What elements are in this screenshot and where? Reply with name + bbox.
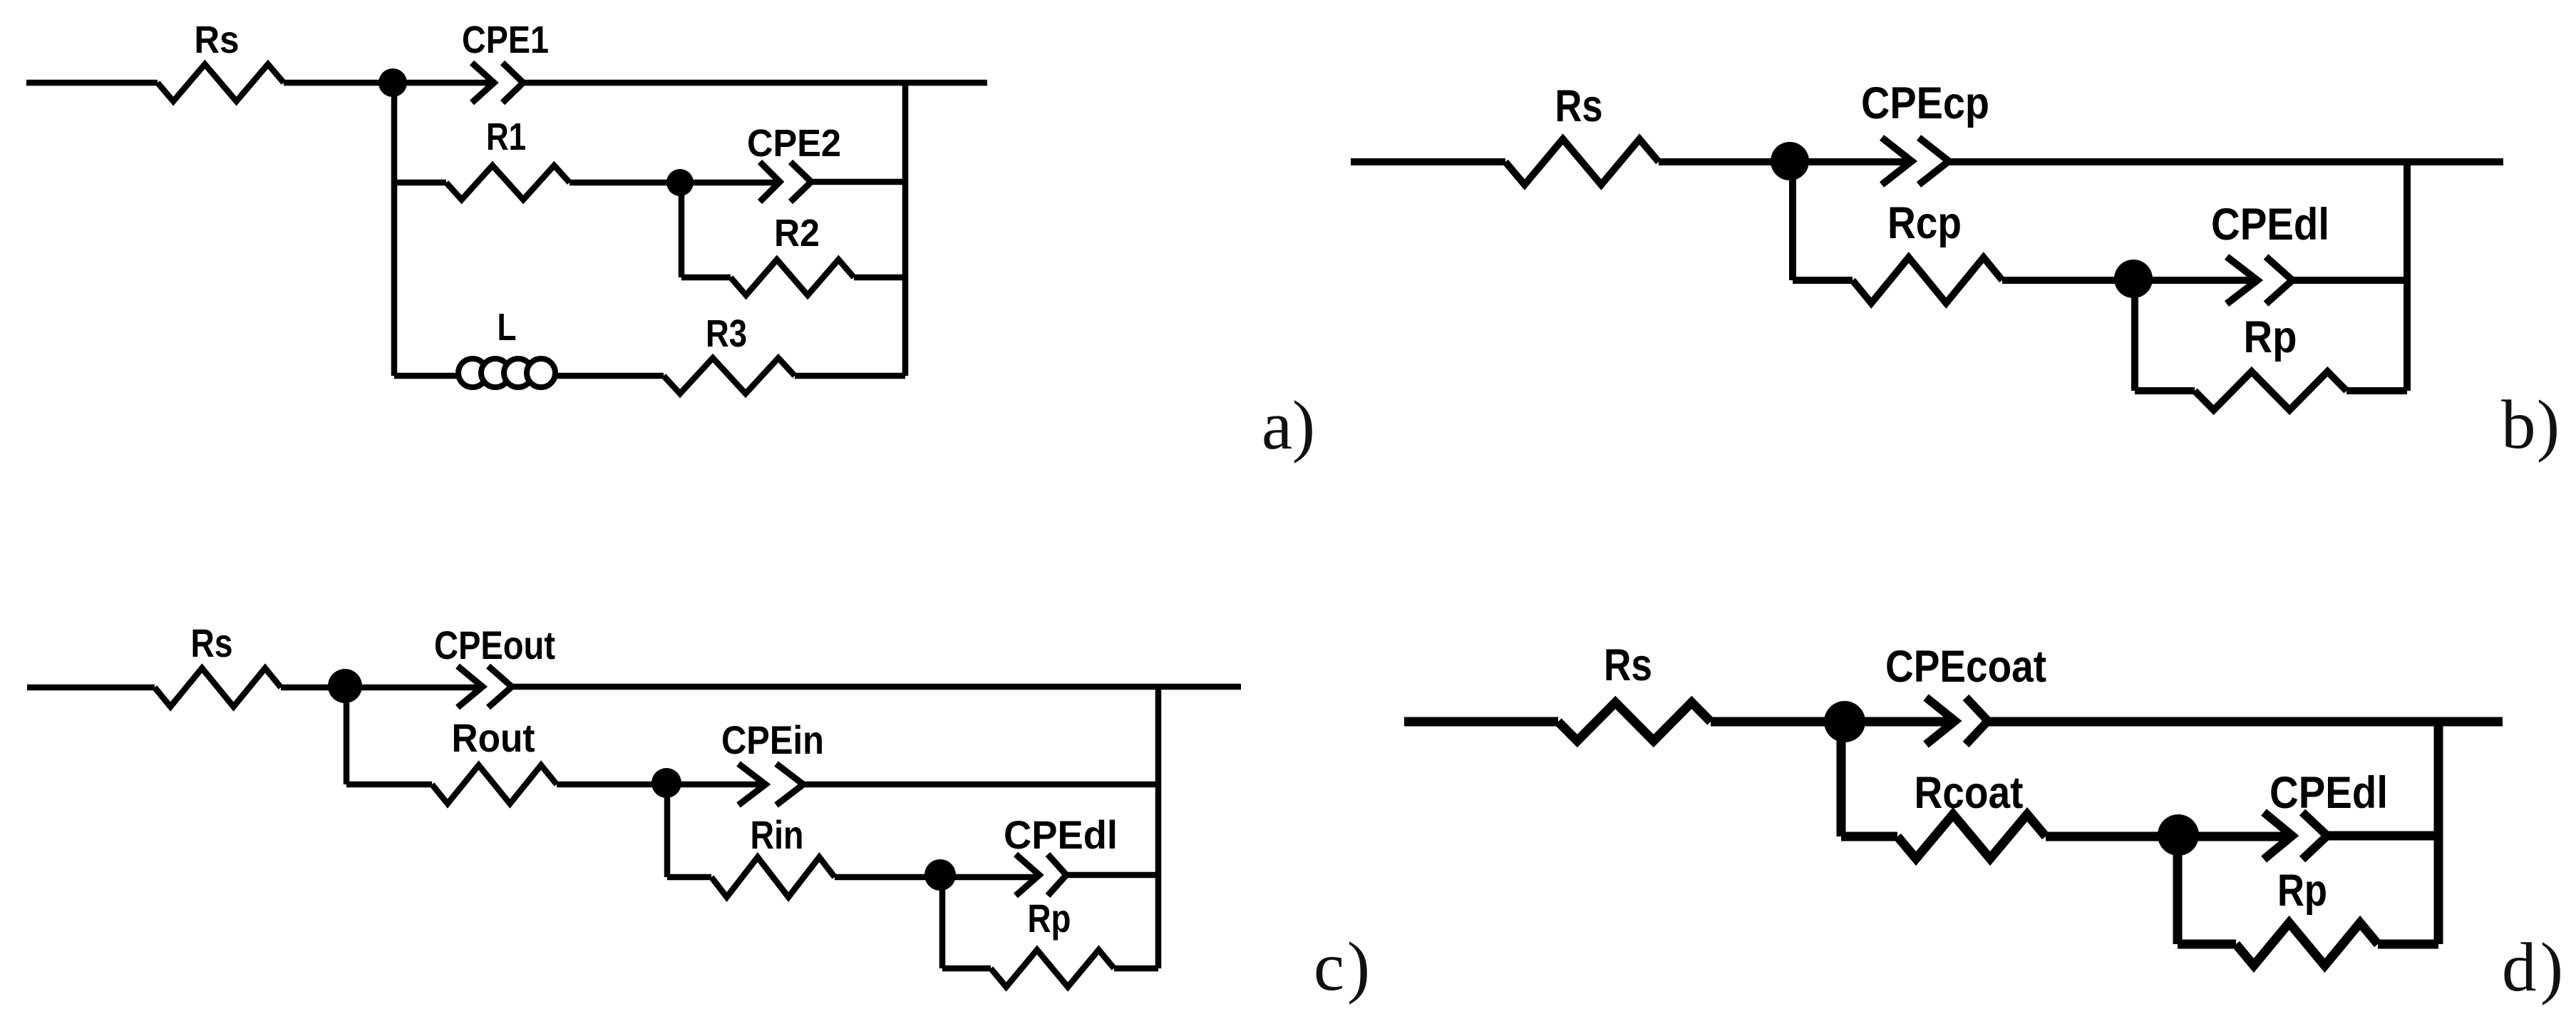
resistor Rs d: [1558, 702, 1711, 741]
resistor Rout: [432, 765, 557, 804]
svg-text:Rs: Rs: [1555, 81, 1603, 131]
svg-text:CPEdl: CPEdl: [2211, 200, 2329, 250]
svg-text:CPEdl: CPEdl: [2270, 768, 2388, 818]
svg-text:CPEcoat: CPEcoat: [1885, 642, 2046, 692]
CPEdl d: [2264, 812, 2327, 859]
resistor Rcp: [1853, 257, 2002, 303]
resistor Rs: [1505, 139, 1659, 185]
wire: [2434, 722, 2443, 944]
resistor Rs c: [155, 668, 281, 707]
wire: [1114, 966, 1158, 972]
wire: [2135, 387, 2195, 394]
wire: [902, 83, 909, 376]
svg-text:CPEout: CPEout: [434, 623, 555, 667]
CPEdl c: [1016, 854, 1066, 896]
svg-text:d): d): [2502, 929, 2563, 1005]
svg-text:Rp: Rp: [2244, 312, 2297, 362]
wire: [2346, 387, 2407, 394]
CPE2: [760, 162, 811, 202]
node B1: [1771, 142, 1809, 180]
wire: [681, 275, 731, 281]
svg-text:L: L: [498, 306, 517, 349]
CPEcp: [1882, 138, 1949, 185]
wire: [555, 373, 664, 379]
svg-text:b): b): [2501, 386, 2560, 463]
svg-text:Rs: Rs: [191, 620, 233, 665]
resistor R1: [446, 165, 570, 200]
wire: [1155, 687, 1162, 968]
svg-text:Rout: Rout: [452, 715, 535, 760]
svg-text:R2: R2: [774, 212, 820, 255]
wire: [2002, 277, 2407, 284]
wire: [1793, 277, 1853, 284]
wire: [284, 80, 987, 86]
wire: [667, 874, 711, 881]
svg-text:Rin: Rin: [751, 812, 804, 857]
wire: [942, 966, 991, 972]
node C3: [924, 859, 956, 891]
wire: [664, 784, 671, 877]
wire: [557, 782, 1158, 788]
CPEin: [738, 764, 803, 805]
svg-text:R3: R3: [706, 312, 747, 355]
wire: [391, 83, 398, 376]
wire: [344, 687, 350, 784]
svg-text:Rp: Rp: [1028, 896, 1071, 941]
resistor Rin: [711, 857, 835, 897]
wire: [27, 685, 155, 691]
wire: [835, 875, 1158, 877]
node A2: [666, 169, 694, 196]
wire: [1404, 717, 1558, 727]
node B2: [2114, 260, 2153, 298]
svg-text:CPEdl: CPEdl: [1004, 812, 1118, 857]
wire: [394, 180, 446, 186]
wire: [679, 183, 685, 277]
svg-text:CPEcp: CPEcp: [1861, 78, 1989, 128]
wire: [570, 182, 905, 183]
resistor Rp: [2195, 372, 2346, 410]
wire: [2378, 940, 2438, 949]
svg-text:CPE2: CPE2: [747, 122, 841, 165]
CPEdl b: [2227, 257, 2292, 304]
wire: [281, 687, 1241, 687]
wire: [26, 80, 158, 86]
node A1: [378, 68, 407, 97]
wire: [2404, 162, 2411, 391]
CPEout: [458, 666, 512, 707]
resistor Rp d: [2236, 923, 2378, 966]
wire: [854, 275, 905, 281]
wire: [939, 877, 946, 968]
svg-text:a): a): [1262, 387, 1315, 464]
inductor L: [458, 359, 555, 387]
resistor Rcoat: [1897, 814, 2046, 859]
svg-text:CPE1: CPE1: [462, 19, 549, 61]
svg-text:Rp: Rp: [2277, 866, 2327, 916]
wire: [1351, 158, 1505, 165]
svg-text:Rs: Rs: [195, 19, 239, 61]
node C1: [328, 669, 362, 703]
node D2: [2158, 814, 2199, 856]
wire: [346, 782, 432, 788]
wire: [2173, 836, 2183, 944]
wire: [2131, 280, 2138, 391]
svg-text:Rcoat: Rcoat: [1915, 768, 2024, 818]
node D1: [1824, 701, 1865, 742]
wire: [2046, 836, 2438, 836]
wire: [2178, 940, 2236, 949]
wire: [795, 373, 905, 379]
resistor Rp c: [991, 950, 1114, 987]
svg-text:Rcp: Rcp: [1887, 198, 1962, 248]
wire: [1789, 162, 1796, 280]
wire: [394, 373, 458, 379]
CPEcoat: [1926, 697, 1988, 744]
resistor R3: [664, 358, 795, 394]
resistor R2: [731, 260, 854, 295]
svg-text:Rs: Rs: [1604, 640, 1652, 690]
svg-text:c): c): [1314, 928, 1370, 1005]
svg-text:R1: R1: [486, 116, 526, 158]
CPE1: [472, 63, 523, 103]
svg-text:CPEin: CPEin: [721, 717, 824, 762]
wire: [1659, 158, 2503, 165]
wire: [1837, 722, 1846, 836]
wire: [1711, 717, 2503, 727]
node C2: [651, 768, 681, 798]
resistor Rs: [158, 64, 284, 101]
wire: [1841, 832, 1897, 841]
